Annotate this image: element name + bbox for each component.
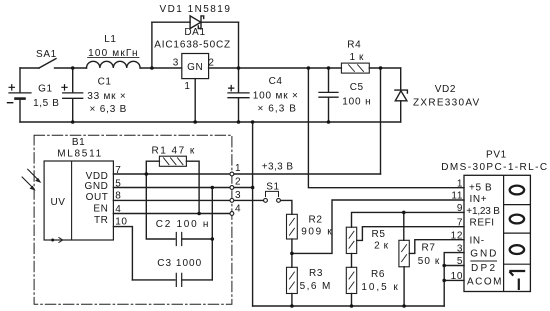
wire line9 R5 to PV1 [352,212,465,227]
light arrow 1 [28,169,42,183]
svg-text:3: 3 [457,243,463,254]
meter PV1 DP2 overline [470,260,497,262]
svg-text:ACOM: ACOM [467,276,502,287]
G1 plus [9,84,16,91]
resistor R4 power marks [349,65,364,72]
sensor B1 inner box [44,161,113,240]
svg-text:3: 3 [173,57,179,68]
svg-text:DP2: DP2 [471,263,496,274]
svg-text:L1: L1 [104,34,116,45]
diode VD1 schottky cathode bar [198,16,203,29]
diode VD1 right riser [238,22,240,68]
svg-text:7: 7 [457,217,463,228]
wire L1 to DA1 pin3 [140,67,182,69]
svg-text:× 6,3 В: × 6,3 В [258,104,297,115]
svg-text:AIC1638-50CZ: AIC1638-50CZ [154,40,231,51]
wire pin2 to GND riser [234,187,253,189]
resistor R6 power marks [349,272,354,289]
svg-text:REFI: REFI [470,218,495,229]
wire R2/R3 junction to line11 [292,200,464,253]
svg-text:100 н: 100 н [342,97,371,108]
zener VD2 cathode bar [395,90,408,93]
wire DA1 pin2 to R4 [209,67,342,69]
svg-text:× 6,3 В: × 6,3 В [89,104,127,115]
svg-text:VD2: VD2 [435,84,456,95]
capacitor C4 plates [228,93,249,98]
svg-text:C3 1000: C3 1000 [157,258,202,269]
diode VD1 cathode wire [201,21,239,23]
resistor R7 box [399,240,409,266]
svg-text:3: 3 [235,190,241,201]
capacitor C3 left wire [132,279,175,281]
svg-text:2: 2 [235,177,241,188]
connector pin circles on B1 boundary [230,172,280,215]
wire bottom rail [20,121,401,123]
wire VDD pin7 line [113,173,230,175]
svg-text:10: 10 [115,216,127,227]
svg-text:G1: G1 [38,84,53,95]
svg-text:7: 7 [115,165,121,176]
svg-text:12: 12 [451,230,463,241]
meter PV1 digit 0 cell1 [510,186,524,195]
svg-text:10: 10 [451,271,463,282]
svg-text:B1: B1 [72,137,85,148]
svg-text:OUT: OUT [86,192,109,203]
resistor R3 bottom lead [291,294,293,307]
svg-text:9: 9 [457,203,463,214]
svg-text:GND: GND [84,181,108,192]
svg-text:ML8511: ML8511 [57,149,102,160]
capacitor C2 right wire [182,238,213,240]
svg-text:909 к: 909 к [301,226,332,237]
resistor R4 box [341,63,369,73]
svg-text:C5: C5 [350,82,364,93]
block B1 dash-dot boundary [34,135,232,304]
svg-text:+5 В: +5 В [469,183,492,194]
inductor L1 [87,61,141,68]
svg-text:IN+: IN+ [470,194,488,205]
svg-text:2: 2 [208,57,214,68]
capacitor C5 leads [328,68,330,122]
svg-text:R2: R2 [309,215,323,226]
wire GND riser [252,122,254,306]
svg-text:GN: GN [187,62,203,73]
wire line9 riser to R7 [403,212,405,240]
diode VD1 triangle [190,16,201,29]
svg-text:R6: R6 [371,269,385,280]
svg-text:R4: R4 [347,40,361,51]
resistor R2 box [287,214,298,239]
plus/minus polarity marks [7,84,235,103]
battery G1 long plate [9,92,31,94]
switch S1 bracket [266,191,279,196]
switch S1 contact circles [264,199,268,203]
wire R5 to R6 [351,254,353,268]
svg-text:+3,3 В: +3,3 В [262,162,294,173]
resistor R3 box [287,267,298,293]
diode VD1 anode wire [152,21,190,23]
svg-text:1: 1 [457,178,463,189]
resistor R5 wiper to line7 [357,227,464,241]
diode VD1 left riser [151,22,153,68]
resistor R3 power marks [289,272,294,289]
meter PV1 minus sign [518,279,520,291]
svg-text:4: 4 [235,204,241,215]
svg-text:11: 11 [451,191,463,202]
svg-text:VD1 1N5819: VD1 1N5819 [160,4,231,15]
resistor R5 power marks [349,231,354,248]
zener VD2 branch bottom [400,101,402,122]
wire pin3 to S1 [234,199,264,201]
wire R4 to VD2 corner [369,67,400,69]
svg-text:R5: R5 [372,229,386,240]
sensor B1 partition [71,161,73,240]
wire line3 to PV1 [444,253,464,306]
capacitor C3 plates [176,273,181,286]
svg-text:S1: S1 [266,182,279,193]
resistor R7 bottom lead [403,267,405,306]
wire SA1 to L1 [55,67,87,69]
svg-text:5: 5 [457,256,463,267]
svg-text:1: 1 [184,81,190,92]
resistor R6 box [346,267,356,293]
wire line10 to PV1 [444,279,464,281]
capacitor C3 right wire [182,279,213,281]
wire GND pin5 line [113,187,230,189]
converter DA1 pin1 wire [194,79,196,122]
svg-text:5: 5 [115,178,121,189]
capacitor C5 plates [319,92,338,97]
svg-text:1: 1 [235,163,241,174]
svg-text:SA1: SA1 [36,49,57,60]
switch SA1 blade [39,59,56,68]
svg-text:UV: UV [50,197,65,208]
wire +5V riser to PV1 pin1 [308,68,464,188]
zener VD2 branch top [400,68,402,90]
svg-text:C4: C4 [269,76,283,87]
capacitor C4 leads [238,68,240,122]
resistor R2 bottom lead [291,239,293,253]
wire +3,3V line [234,173,381,175]
converter DA1 box [182,54,209,79]
wire line5 to PV1 [444,265,464,267]
svg-text:C2 100 н: C2 100 н [156,219,209,230]
meter PV1 digit 1 cell4 [509,271,525,276]
G1 minus [7,102,14,104]
resistor R6 bottom lead [351,294,353,307]
wire OUT pin8 line [113,199,230,201]
svg-text:1 к: 1 к [349,52,364,63]
svg-text:8: 8 [115,191,121,202]
wire lower ground rail [253,305,445,307]
wire top rail G1 to SA1 [20,67,39,69]
meter PV1 digit 0 cell3 [510,245,524,254]
capacitor C2 plates [176,233,181,246]
capacitor C1 leads [72,68,74,122]
svg-text:C1: C1 [98,76,112,87]
meter PV1 display cell lines [504,205,531,265]
resistor R2 power marks [289,218,294,235]
zener VD2 triangle [395,91,407,101]
svg-text:R7: R7 [422,243,436,254]
svg-text:IN-: IN- [470,235,485,246]
meter PV1 box [464,175,530,291]
svg-text:50 к: 50 к [418,256,440,267]
svg-text:33 мк ×: 33 мк × [87,91,126,102]
svg-text:DA1: DA1 [184,27,205,38]
capacitor C2 left riser [146,174,175,239]
svg-text:R1 47 к: R1 47 к [152,146,195,157]
wire C2/C3 riser to GND line [211,188,213,280]
svg-text:100 мк ×: 100 мк × [253,90,299,101]
svg-text:10,5 к: 10,5 к [361,282,398,293]
C4 plus [228,85,234,92]
svg-text:2 к: 2 к [374,241,389,252]
resistor R1 left lead [146,161,159,174]
resistor R1 power marks [164,158,184,165]
L1 label underline [87,57,139,59]
resistor R1 right lead [186,161,199,213]
svg-text:1,5 В: 1,5 В [33,98,59,109]
capacitor C1 plates [63,93,83,98]
wire S1 to R2 [281,200,292,214]
svg-text:GND: GND [470,249,497,260]
resistor R7 wiper to line12 [409,240,464,254]
svg-text:ZXRE330AV: ZXRE330AV [413,97,480,108]
wire +3,3V riser [380,68,382,174]
wire TR pin10 line to C3 [113,227,132,280]
svg-text:DMS-30PC-1-RL-C: DMS-30PC-1-RL-C [441,162,547,173]
svg-text:PV1: PV1 [486,149,507,160]
svg-text:TR: TR [94,215,109,226]
meter PV1 divider [503,175,505,291]
svg-text:EN: EN [93,204,108,215]
C1 plus [61,84,67,91]
svg-text:+1,23 В: +1,23 В [466,206,500,217]
resistor R7 power marks [402,245,407,262]
sensor B1 case arrow [53,238,63,243]
light arrow 2 [22,177,36,191]
battery G1 leads [19,68,21,122]
meter PV1 digit 0 cell2 [510,215,524,224]
svg-text:5,6 М: 5,6 М [300,281,331,292]
resistor R5 box [346,227,356,253]
svg-text:R3: R3 [309,268,323,279]
resistor R1 box [159,156,186,166]
resistor R3 top lead [291,253,293,267]
battery G1 short plate [16,97,25,100]
svg-text:4: 4 [115,204,121,215]
wire EN pin4 line [113,213,230,215]
